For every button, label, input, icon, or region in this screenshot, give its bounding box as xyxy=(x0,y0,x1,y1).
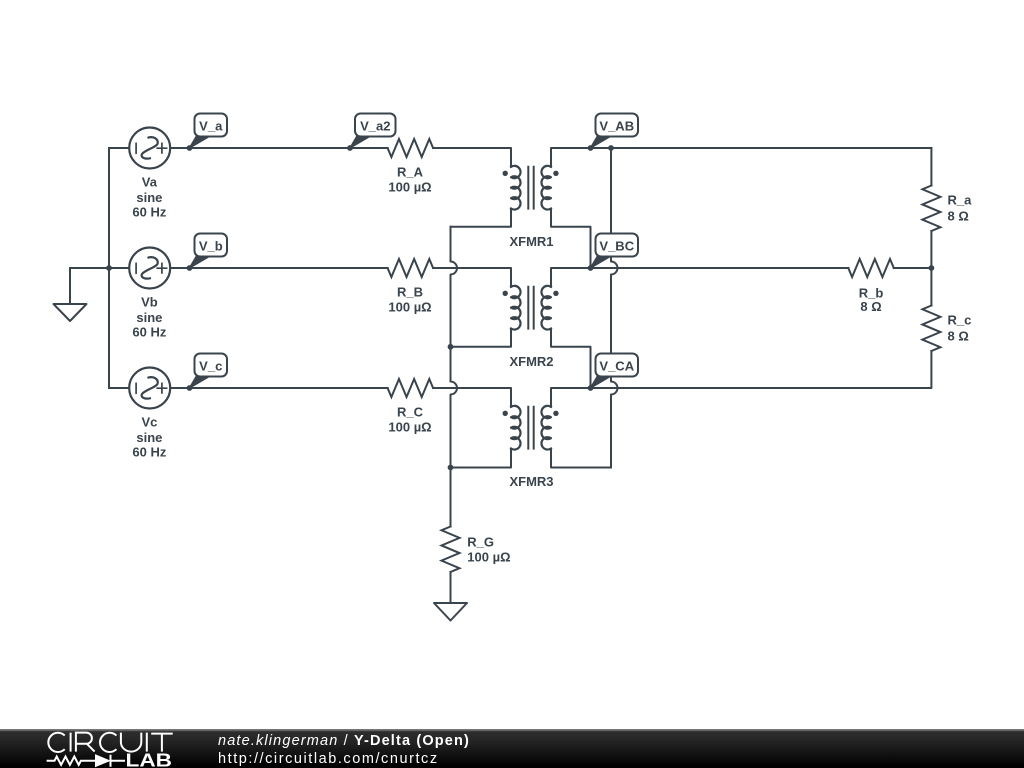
svg-text:60 Hz: 60 Hz xyxy=(132,445,166,460)
logo text CIRCUIT xyxy=(48,733,64,752)
resistor R_b 8Ω xyxy=(848,259,893,314)
svg-text:V_b: V_b xyxy=(199,239,223,254)
wire XFMR3 secondary top to V_CA xyxy=(551,388,591,407)
wire Vb+ to R_B xyxy=(170,267,387,269)
wire bus to Vb xyxy=(109,267,129,269)
svg-text:V_AB: V_AB xyxy=(599,119,634,134)
transformer XFMR1 xyxy=(503,166,559,249)
transformer XFMR3 xyxy=(503,406,559,489)
wire XFMR3 primary bottom to neutral xyxy=(451,449,512,468)
svg-text:60 Hz: 60 Hz xyxy=(132,325,166,340)
footer author/title line xyxy=(218,733,470,749)
svg-text:100 µΩ: 100 µΩ xyxy=(467,550,510,565)
wire XFMR2 secondary bottom to V_CA xyxy=(551,329,591,388)
node flag V_a2 xyxy=(347,114,395,151)
resistor R_A 100 µΩ xyxy=(388,139,433,195)
node flag V_AB xyxy=(588,114,638,151)
footer bar xyxy=(0,729,1024,768)
wire R_b to right rail xyxy=(894,267,932,269)
svg-text:8 Ω: 8 Ω xyxy=(948,209,969,224)
wire XFMR1 primary bottom to neutral xyxy=(451,209,512,227)
wire neutral vertical (hops rows B and C) xyxy=(451,227,458,527)
svg-text:sine: sine xyxy=(136,430,162,445)
resistor R_B 100 µΩ xyxy=(388,259,433,315)
junction dot neutral/XFMR2 xyxy=(448,344,454,350)
voltage source Va (va, sine 60 Hz) xyxy=(129,128,170,220)
svg-text:LAB: LAB xyxy=(126,751,173,768)
wire XFMR2 primary bottom to neutral xyxy=(451,329,512,347)
resistor R_C 100 µΩ xyxy=(388,379,433,435)
svg-text:V_c: V_c xyxy=(199,359,222,374)
svg-text:R_C: R_C xyxy=(397,405,424,420)
wire left bus (Va/Vb/Vc common) xyxy=(108,148,110,388)
resistor R_c 8Ω xyxy=(922,306,971,351)
svg-text:R_c: R_c xyxy=(948,313,972,328)
junction dot V_AB / delta return xyxy=(608,145,614,151)
svg-text:8 Ω: 8 Ω xyxy=(860,299,881,314)
junction dot R_a/R_b/R_c xyxy=(929,265,935,271)
wire XFMR1 secondary bottom to V_BC xyxy=(551,209,591,268)
wire bus to Vc xyxy=(109,387,129,389)
node flag V_BC xyxy=(588,234,638,271)
svg-text:V_a2: V_a2 xyxy=(360,119,390,134)
wire R_B to XFMR primary xyxy=(433,268,511,287)
svg-text:R_B: R_B xyxy=(397,285,423,300)
voltage source Vc (vc, sine 60 Hz) xyxy=(129,368,170,460)
logo resistor-diode glyph xyxy=(47,755,125,767)
wire R_A to XFMR primary xyxy=(433,148,511,167)
svg-text:sine: sine xyxy=(136,310,162,325)
wire bus to Va xyxy=(109,147,129,149)
svg-text:XFMR2: XFMR2 xyxy=(509,354,553,369)
resistor R_G 100 µΩ xyxy=(442,527,511,572)
voltage source Vb (vb, sine 60 Hz) xyxy=(129,248,170,340)
wire XFMR1 secondary top to V_AB rail xyxy=(551,148,931,167)
wire Vc+ to R_C xyxy=(170,387,387,389)
junction dot: ground / left bus xyxy=(106,265,112,271)
wire R_G to ground xyxy=(450,572,452,603)
svg-text:Vc: Vc xyxy=(141,415,157,430)
resistor R_a 8Ω xyxy=(922,186,972,231)
ground (bottom, via R_G) xyxy=(434,603,467,621)
wire Va+ to R_A xyxy=(170,147,387,149)
svg-text:R_a: R_a xyxy=(948,193,973,208)
wire R_c to V_CA rail xyxy=(591,351,932,388)
svg-text:Va: Va xyxy=(142,175,158,190)
svg-text:100 µΩ: 100 µΩ xyxy=(388,420,431,435)
ground (left, source neutral) xyxy=(54,304,87,321)
svg-text:100 µΩ: 100 µΩ xyxy=(388,180,431,195)
wire ground tee xyxy=(70,268,109,304)
svg-text:60 Hz: 60 Hz xyxy=(132,205,166,220)
svg-text:sine: sine xyxy=(136,190,162,205)
transformer XFMR2 xyxy=(503,286,559,369)
svg-text:V_a: V_a xyxy=(199,119,223,134)
svg-text:R_G: R_G xyxy=(467,534,494,549)
svg-text:XFMR3: XFMR3 xyxy=(509,474,553,489)
svg-text:100 µΩ: 100 µΩ xyxy=(388,300,431,315)
wire delta return vertical x=611 (hops rows B and C) xyxy=(611,148,618,468)
junction dot neutral/XFMR3 xyxy=(448,465,454,471)
svg-text:Vb: Vb xyxy=(141,295,158,310)
svg-text:R_A: R_A xyxy=(397,165,424,180)
svg-text:8 Ω: 8 Ω xyxy=(948,329,969,344)
CircuitLab logo xyxy=(0,729,200,768)
wire V_BC to R_b xyxy=(591,267,849,269)
svg-text:V_BC: V_BC xyxy=(599,239,634,254)
node flag V_CA xyxy=(588,354,638,391)
wire XFMR3 secondary bottom to delta return xyxy=(551,449,611,468)
node flag V_c xyxy=(187,354,227,391)
wire R_C to XFMR primary xyxy=(433,388,511,407)
svg-text:V_CA: V_CA xyxy=(599,359,634,374)
node flag V_b xyxy=(187,234,227,271)
wire XFMR2 secondary top to V_BC xyxy=(551,268,591,287)
svg-text:XFMR1: XFMR1 xyxy=(509,234,553,249)
footer url line xyxy=(218,751,439,767)
wire R_a to R_c xyxy=(930,231,932,306)
wire right rail top (V_AB to R_a) xyxy=(930,148,932,186)
node flag V_a xyxy=(187,114,227,151)
